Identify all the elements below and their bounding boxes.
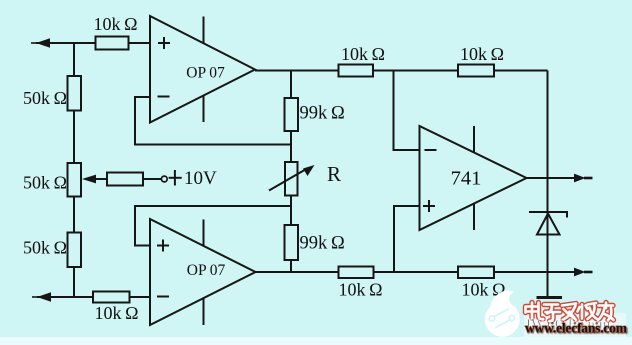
resistor 10k box (bottom rail left) (339, 267, 374, 279)
zener diode D1 triangle (537, 214, 560, 235)
svg-text:50k Ω: 50k Ω (23, 173, 67, 193)
resistor 99k box (upper) (285, 98, 299, 131)
op-amp U1 OP07 triangle (top) (150, 16, 255, 123)
wire U2 feedback (plus input to node above 99k lower) (135, 206, 291, 246)
resistor 99k box (lower) (285, 225, 299, 260)
svg-text:10k Ω: 10k Ω (460, 44, 504, 64)
wire top rail right to corner (494, 70, 548, 72)
svg-text:99k Ω: 99k Ω (300, 104, 345, 124)
wire R1 to op-amp U1 + input (129, 42, 151, 44)
resistor 10k box (top rail left) (339, 65, 374, 77)
wire R box to node (290, 196, 292, 226)
watermark url text (525, 321, 629, 337)
wire U1 feedback (minus input to node below 99k) (135, 97, 291, 145)
watermark light band (524, 313, 626, 337)
resistor R2 10k box (bottom-left) (93, 292, 130, 303)
op-amp U1 minus input symbol (158, 96, 170, 98)
bottom light strip (0, 337, 632, 345)
wire node drop to 99k upper (290, 71, 292, 99)
op-amp U3 power pin bottom (473, 204, 475, 230)
rheostat R box (285, 162, 298, 196)
svg-text:99k Ω: 99k Ω (300, 234, 345, 254)
wire U3 output (527, 177, 575, 179)
wire top rail between 10k resistors (373, 70, 458, 72)
wire U1 output (255, 70, 339, 72)
watermark logo circle (485, 290, 520, 336)
op-amp U3 minus input symbol (425, 149, 437, 151)
wire 99k upper to node (290, 131, 292, 162)
svg-text:R: R (327, 162, 341, 186)
wire bottom input to R2 (37, 296, 93, 298)
wire feedback drop to 741 output node (547, 71, 549, 213)
svg-text:OP 07: OP 07 (187, 262, 226, 279)
wire left rail segment 2 (73, 111, 75, 164)
op-amp U1 power pin bottom (203, 96, 205, 122)
resistor 10k box (top rail right) (458, 65, 494, 77)
op-amp U2 plus input symbol (157, 240, 169, 252)
svg-text:50k Ω: 50k Ω (23, 88, 67, 108)
svg-text:OP 07: OP 07 (186, 65, 225, 82)
op-amp U2 power pin top (203, 220, 205, 247)
wire 99k lower to bottom output wire (290, 260, 292, 272)
wire left rail segment 1 (73, 43, 75, 76)
wire top input to R1 (36, 42, 96, 44)
output terminal arrow right (574, 174, 593, 183)
resistor 10k box (bottom rail right) (458, 267, 494, 279)
svg-text:10k Ω: 10k Ω (94, 14, 138, 34)
open terminal circle +10V (161, 176, 167, 182)
op-amp U2 minus input symbol (157, 296, 169, 298)
wire diode to ground (547, 212, 549, 297)
op-amp U3 power pin top (473, 126, 475, 152)
op-amp U2 OP07 triangle (bottom) (150, 219, 256, 325)
input terminal arrow top-left (31, 38, 50, 47)
wire R2 to op-amp U2 - input (130, 296, 151, 298)
svg-text:10V: 10V (184, 168, 217, 189)
resistor box (wiper series, unlabeled) (107, 173, 143, 186)
watermark chinese text dian zi fa shao you (526, 303, 614, 322)
wire wiper resistor to +10V terminal (143, 178, 161, 180)
wire 741 plus branch (394, 206, 420, 272)
rheostat diagonal arrow (269, 165, 315, 191)
wire left rail segment 4 (73, 267, 75, 297)
zener diode D1 cathode bar (529, 212, 567, 218)
resistor R1 10k box (top-left) (96, 37, 129, 50)
op-amp U2 power pin bottom (203, 298, 205, 325)
op-amp U1 plus input symbol (158, 37, 170, 49)
svg-text:10k Ω: 10k Ω (95, 303, 139, 323)
svg-text:www.elecfans.com: www.elecfans.com (525, 321, 628, 336)
input terminal arrow bottom-left (32, 292, 51, 301)
svg-text:50k Ω: 50k Ω (23, 238, 67, 258)
op-amp U3 plus input symbol (423, 200, 435, 212)
resistor 50k box (lower) (68, 233, 82, 268)
svg-text:10k Ω: 10k Ω (341, 44, 385, 64)
plus sign of +10V (169, 170, 182, 186)
ground symbol (537, 296, 563, 299)
potentiometer wiper arrow (82, 175, 107, 184)
op-amp U3 741 triangle (420, 126, 527, 230)
output terminal arrow bottom-right (574, 268, 593, 277)
svg-text:741: 741 (451, 168, 482, 190)
op-amp U1 power pin top (203, 17, 205, 44)
wire U2 output (bottom rail) (256, 271, 575, 273)
wire left rail segment 3 (73, 197, 75, 233)
wire 741 minus branch (394, 71, 420, 151)
svg-text:10k Ω: 10k Ω (339, 280, 383, 300)
potentiometer 50k box (middle) (68, 163, 82, 197)
resistor 50k box (upper) (68, 76, 82, 111)
